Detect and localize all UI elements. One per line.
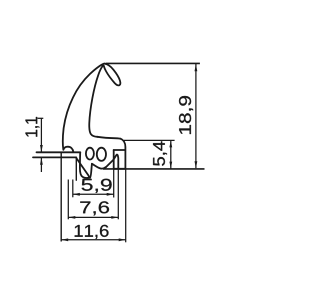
dimension text 18,9 (rotated) — [179, 96, 193, 134]
dimension line 1,1 upper segment — [40, 118, 42, 151]
profile fin right edge (spike) — [90, 164, 92, 178]
arrowhead 7,6 left — [68, 216, 75, 219]
dimension line 1,1 lower segment — [40, 158, 42, 172]
arrowhead 5,9 right — [107, 193, 114, 196]
extension line 5,9 left — [72, 180, 74, 198]
dimension text 5,9 — [82, 179, 112, 193]
oval hole left — [86, 148, 94, 160]
profile fin vertical stub — [75, 158, 77, 181]
arrowhead 5,4 bottom — [169, 162, 172, 169]
profile base right wall inner face — [113, 150, 115, 169]
dimension tick 1,1 top — [38, 117, 44, 119]
profile base right wall bottom edge — [114, 168, 126, 170]
arrowhead 18,9 top — [195, 64, 198, 71]
profile base top edge — [97, 137, 120, 139]
dimension line 11,6 — [61, 239, 126, 241]
dimension text 1,1 (rotated) — [26, 117, 40, 137]
profile fin diagonal edge — [76, 158, 90, 178]
extension line 5,9 right — [113, 169, 115, 198]
extension line 11,6 right — [125, 169, 127, 243]
dimension text 7,6 — [80, 201, 109, 215]
profile flipper inner edge — [89, 66, 103, 137]
profile lip end cap and fin edge B — [80, 152, 89, 178]
profile bottom barb rising edge — [106, 155, 118, 169]
extension line 7,6 right — [117, 157, 119, 219]
extension line base top right (5,4) — [124, 139, 175, 141]
dimension line 5,4 — [170, 140, 172, 168]
extension line 11,6 left — [60, 153, 62, 242]
profile bottom wave edge — [92, 164, 106, 169]
profile lip top edge — [37, 151, 81, 153]
profile flipper root curl — [63, 147, 73, 152]
profile flipper outer edge — [63, 64, 104, 150]
arrowhead 11,6 left — [61, 238, 68, 241]
arrowhead 11,6 right — [119, 238, 126, 241]
dimension line 7,6 — [68, 216, 118, 218]
arrowhead 18,9 bottom — [195, 161, 198, 168]
extension line bottom (shared) — [103, 168, 205, 170]
arrowhead 5,4 top — [169, 140, 172, 147]
dimension line 18,9 — [195, 64, 197, 168]
arrowhead 5,9 left — [73, 193, 80, 196]
extension line top (18,9) — [106, 62, 200, 64]
profile base cavity ceiling notch — [114, 149, 125, 151]
arrowhead 7,6 right — [111, 216, 118, 219]
dimension line 5,9 — [73, 193, 114, 195]
extension line 7,6 left — [67, 180, 69, 220]
profile base right wall outer edge with rounded corner — [121, 139, 126, 169]
oval hole right — [97, 148, 106, 161]
dimension text 11,6 — [75, 225, 109, 239]
profile lip bottom edge — [33, 156, 76, 158]
dimension text 5,4 (rotated) — [153, 141, 167, 165]
arrowhead 1,1 upper (points down) — [40, 145, 43, 152]
arrowhead 1,1 lower (points up) — [40, 158, 43, 165]
profile hook (top bead) — [104, 64, 121, 86]
